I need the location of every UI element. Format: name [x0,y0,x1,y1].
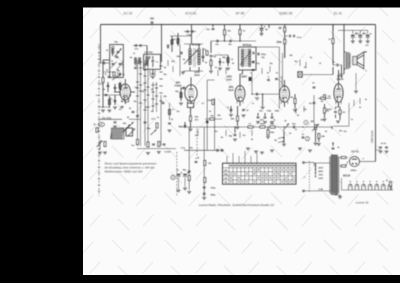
svg-text:1mA: 1mA [226,79,232,82]
wire [129,118,141,120]
resistor R15 [212,100,214,105]
svg-text:0,5-T800: 0,5-T800 [144,52,153,54]
box bandfilter T800 [144,54,161,69]
scale tick marks [98,47,101,191]
wire [210,47,212,53]
capacitor C38 [257,117,260,118]
capacitor C23 [217,40,218,43]
resistor R13 [180,93,182,98]
tuner internal dots [111,60,118,73]
resistor R36 [341,157,346,159]
box crystal diode [298,72,302,78]
svg-text:3M: 3M [166,45,169,47]
svg-text:EF 89: EF 89 [236,12,245,16]
wire [239,101,241,106]
wire [339,64,342,66]
svg-text:50: 50 [129,108,131,110]
capacitor C48 50u [358,33,364,37]
ground [146,153,150,155]
capacitor C66 [313,102,316,103]
capacitor C9 [114,122,117,123]
wire [239,80,241,86]
wire [99,118,122,120]
tuning arrow T2 [240,51,251,65]
resistor R35 [204,178,206,183]
svg-text:233p: 233p [211,188,217,190]
svg-text:UK: UK [224,170,228,172]
scanned page [83,8,400,276]
resistor R1 [102,78,104,83]
wire [137,60,139,146]
rectifier pins [352,163,354,165]
table feed wires [227,151,257,163]
tap 125V [315,163,317,178]
wire [207,79,214,81]
socket circle EC92 [124,97,129,102]
wire [239,74,241,80]
wire [178,178,180,190]
capacitor C19 [202,56,205,57]
wire [359,30,361,34]
ground [308,150,312,152]
ground [246,148,250,150]
wire [152,82,154,112]
junction [161,24,163,26]
capacitor C15 [152,144,155,145]
transformer T3 primary [346,52,351,69]
rectifier anode bar [352,158,357,160]
wire [284,102,286,107]
switch arm tone [283,124,289,131]
resistor R5 [156,123,158,128]
wire [367,30,369,34]
ground [256,122,260,124]
wire [237,121,239,126]
tuner internal cap [116,57,119,58]
ground [113,126,117,128]
wire [339,107,341,109]
svg-text:50: 50 [232,63,234,65]
wire [367,38,369,41]
capacitor C44 [313,87,316,88]
ground [181,72,185,74]
resistor R17 [239,30,241,35]
capacitor C57 [203,193,206,194]
wire [271,113,273,116]
box ratio det inner [282,53,284,87]
wire [284,25,286,59]
wire [189,67,191,71]
wire [239,25,241,30]
capacitor C33 [267,79,270,80]
svg-text:2,5A: 2,5A [319,188,324,191]
svg-text:25: 25 [297,115,299,117]
ground [103,152,107,154]
circled 2 [305,137,309,141]
wire [336,106,341,108]
svg-text:EC 92: EC 92 [124,12,133,16]
ground [293,110,297,112]
resistor R34 [204,161,206,166]
wire [352,30,354,34]
svg-text:0,1μ: 0,1μ [297,37,302,39]
heater dots [350,181,391,182]
node B+ top bus [101,24,376,26]
wire [364,51,367,53]
wire [252,93,280,95]
wire [198,67,200,71]
ground [254,151,258,153]
svg-text:280Va: 280Va [351,170,358,172]
wire [177,36,179,46]
resistor R40 [227,58,229,63]
resistor R19 [284,27,286,32]
diode cross [298,72,302,77]
wire [114,91,120,93]
resistor R8 [147,142,149,147]
svg-text:15p: 15p [114,42,118,44]
svg-text:250p: 250p [261,54,267,56]
tuner internal res [118,71,120,75]
wire [339,73,345,75]
junction [207,126,208,127]
svg-text:1M: 1M [310,121,313,123]
wire [214,98,216,150]
wire [331,127,333,129]
wire [376,149,381,151]
wire [198,44,200,49]
ground [209,71,213,73]
capacitor C42 [293,126,294,129]
resistor R43 [210,118,215,120]
ground [270,122,274,124]
box switch unit [126,128,133,136]
wire [102,72,104,108]
wire [339,195,341,197]
resistor R12 [171,40,173,44]
node mains line top [303,162,314,164]
svg-text:0,1μ: 0,1μ [181,148,186,150]
capacitor C32 [293,35,294,37]
resistor R26 volume pot [315,125,317,130]
wire [184,31,196,33]
tuner internal coil [112,46,114,53]
wire [124,79,126,84]
capacitor C31 [289,35,290,37]
wire [237,106,239,116]
capacitor C22 10n [212,28,215,29]
svg-text:36mA: 36mA [337,78,344,81]
wave switch arrow [124,122,134,132]
svg-text:10: 10 [319,63,321,65]
ground [366,41,370,43]
wire [344,68,346,70]
resistor R39 [210,61,212,66]
wire [103,94,121,96]
capacitor C41 [234,134,237,135]
svg-text:467kHz: 467kHz [242,43,252,47]
capacitor C18 [181,52,182,55]
ground [263,122,267,124]
wire [315,130,317,143]
svg-text:2m: 2m [131,145,134,147]
core [194,49,196,68]
wire [107,82,109,92]
capacitor C47 50u [351,33,357,37]
ground [298,148,302,150]
tap 240V [315,163,317,171]
wire [215,54,228,56]
heater filaments V1-V6 [349,184,392,190]
wire [171,47,173,52]
svg-text:EABC 80: EABC 80 [279,12,292,16]
trimmer arrow [115,49,122,58]
mains plug prong top [303,162,305,164]
wire [131,91,136,93]
svg-text:170p: 170p [187,34,192,36]
svg-text:2Ω: 2Ω [339,131,342,133]
table grid [223,163,297,184]
wire [169,103,171,120]
ground [98,152,102,154]
junction blob [206,121,208,124]
wire [240,73,243,75]
capacitor C60 [385,147,388,148]
svg-text:Meßbereiche: 300Ω und 10k: Meßbereiche: 300Ω und 10k [105,170,143,174]
resistor R37 [341,165,346,167]
wire [206,80,208,150]
capacitor C12 [151,60,154,61]
capacitor C65 [136,115,139,116]
ground [266,137,270,139]
capacitor C58 5n [332,148,335,149]
junction [267,126,268,127]
wire [99,62,110,64]
wire [257,113,259,116]
wire [184,178,186,188]
wire [339,165,341,167]
coil L2 [122,60,124,67]
tuner trimmer 2 [111,62,122,71]
tone switch arrow 1 [278,137,285,139]
core [245,49,247,67]
svg-text:2mA: 2mA [194,74,200,77]
svg-text:160p: 160p [176,56,181,58]
wire [189,44,191,49]
svg-text:44,2: 44,2 [260,119,264,122]
resistor R18 [237,116,239,121]
wire [352,38,354,41]
ground [314,143,318,145]
wire [184,43,203,45]
coil L4 osc [138,58,140,65]
capacitor C40 [271,117,274,118]
wire [346,157,348,159]
junction [234,126,235,127]
tone switch arrow 2 [278,141,285,143]
resistor R22 [248,126,253,128]
wire [332,25,334,39]
antenna jack [99,123,105,127]
capacitor C37 [252,69,255,70]
wire [224,25,226,31]
wire [190,108,192,117]
wire [191,25,193,39]
wire [181,87,185,89]
svg-text:➝: ➝ [362,158,364,161]
ground [151,77,155,79]
circled d [171,175,175,179]
capacitor C35 [256,93,257,96]
svg-text:1M: 1M [328,96,331,98]
capacitor C55 [195,161,198,162]
junction [212,24,214,26]
capacitor C13 [162,102,165,103]
wire [146,46,148,56]
wire [203,150,205,196]
resistor R41 [96,128,98,132]
table dots [254,169,255,170]
tube V5 EL41 [334,84,343,103]
node mains line bottom [303,190,330,192]
node pickup dashed [176,152,178,196]
wire [325,97,331,99]
wire [114,84,116,92]
resistor R33 [188,176,190,181]
transformer T4 mains [331,155,337,194]
ground [218,68,222,70]
capacitor C51 [221,149,222,152]
wire [332,38,334,65]
box FM tuner EC92 front-end [110,45,124,78]
svg-text:Lorenz 22: Lorenz 22 [356,201,369,205]
wire [99,83,103,85]
transformer T2 primary [241,49,244,67]
wire [333,64,336,66]
capacitor C2 trimmer [117,51,120,52]
svg-text:1M: 1M [290,97,293,99]
wire [161,25,163,63]
switch contact c [151,130,157,136]
box socket ECH81 [187,103,193,108]
speaker LS1 [353,52,364,69]
mains switch dashed [308,161,310,192]
junction [261,24,263,26]
capacitor C36 [252,61,255,62]
svg-text:461kHz: 461kHz [191,43,201,47]
wire [147,60,149,146]
table header marks [230,165,296,167]
wire [230,106,232,113]
switch bank contacts [136,62,163,110]
resistor R24 [270,126,275,128]
ground [260,34,264,36]
capacitor C46 [334,111,337,112]
svg-text:W1LM: W1LM [343,175,350,178]
pot arrow volume [312,124,319,131]
junction [343,24,345,26]
capacitor C62 [219,61,222,62]
wire [124,100,126,104]
wire [100,25,102,64]
svg-text:Lorenz-Radio, Pforzheim, Gotth: Lorenz-Radio, Pforzheim, Gotthilf Karl-F… [199,203,275,207]
wire [318,97,321,99]
wire [219,58,221,66]
transformer T2 secondary [248,49,251,67]
svg-text:235V 81mA: 235V 81mA [371,130,374,143]
wire [268,25,270,29]
wire [99,140,101,150]
wire [179,44,181,76]
capacitor C6 [107,85,110,86]
svg-text:125V: 125V [318,178,323,180]
wire [191,38,193,44]
resistor R3 [119,84,121,89]
ground [385,151,389,153]
wire [137,148,176,150]
wire [170,35,192,37]
coil L5 bandfilter [146,56,148,66]
wire [156,82,158,112]
wire [359,38,361,41]
node screen line [211,40,256,42]
resistor R44 [206,51,208,55]
wire [210,66,212,71]
wire [344,51,346,53]
wire [332,67,334,75]
svg-text:250k: 250k [276,42,282,44]
junction [332,142,334,144]
wire [338,70,340,84]
ground [168,130,172,132]
tube V2 ECH81 [185,85,197,101]
coil L1 antenna [112,48,114,56]
capacitor C45 8n [337,64,338,67]
junction [262,24,263,25]
node dial scale dashed line [98,44,100,196]
svg-text:4mA: 4mA [228,89,234,92]
wire [152,63,154,68]
resistor R7 [169,110,171,115]
wire right bus [375,25,377,162]
circled 1 [304,120,308,124]
ground [107,110,111,112]
wire [227,55,229,66]
transformer T1 primary [189,49,192,65]
capacitor C28 [242,109,245,110]
wire [103,71,115,73]
svg-text:0,5: 0,5 [135,87,138,89]
svg-text:230V: 230V [241,76,247,79]
wire [261,25,263,28]
resistor R32 [339,110,341,114]
resistor R30 [321,97,326,99]
resistor R4 [104,142,106,147]
wire [242,70,244,74]
svg-text:50: 50 [195,135,197,137]
wire [390,186,392,190]
wire [152,69,154,73]
capacitor C26 [253,61,254,63]
svg-text:4,7: 4,7 [202,102,205,105]
wire [190,101,192,104]
wire [224,35,226,41]
wire [160,95,162,146]
capacitor C29 [230,109,233,110]
wire [338,102,340,107]
box transformer T2 IF [239,47,257,70]
junction [331,126,332,127]
